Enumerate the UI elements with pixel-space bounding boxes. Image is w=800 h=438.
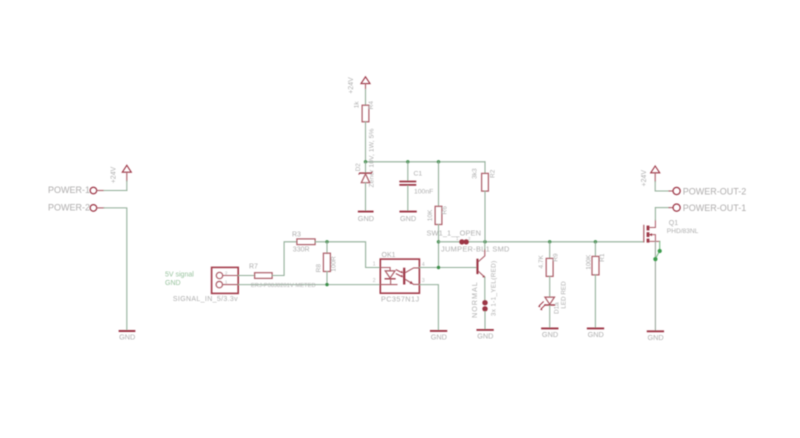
OK1 phototransistor bbox=[403, 268, 419, 285]
svg-text:GND: GND bbox=[477, 332, 493, 341]
wire C1 to GND bbox=[407, 186, 409, 210]
ground (left) bbox=[119, 331, 135, 342]
wire X1 pin1 to opto cathode bbox=[238, 284, 380, 286]
junction bbox=[483, 240, 486, 243]
svg-text:1: 1 bbox=[225, 280, 228, 286]
svg-text:GND: GND bbox=[431, 333, 447, 342]
svg-text:SW1_1__OPEN: SW1_1__OPEN bbox=[427, 228, 482, 237]
wire jumper to GND bbox=[484, 312, 486, 330]
resistor R2 3k3 bbox=[472, 168, 497, 191]
svg-text:D2: D2 bbox=[355, 163, 362, 172]
svg-text:Zener 10V, 1W, 5%: Zener 10V, 1W, 5% bbox=[369, 128, 376, 187]
svg-text:1: 1 bbox=[373, 262, 376, 268]
resistor R4 1k bbox=[354, 101, 375, 122]
svg-text:C1: C1 bbox=[414, 170, 423, 177]
junction bbox=[658, 249, 662, 253]
svg-text:330R: 330R bbox=[293, 246, 310, 253]
op-amp OK1 optocoupler box bbox=[380, 252, 419, 303]
svg-text:R3: R3 bbox=[292, 232, 301, 239]
wire node to R6 bbox=[438, 162, 440, 207]
jumper NORMAL pads bbox=[482, 300, 487, 311]
svg-text:GND: GND bbox=[400, 214, 416, 223]
wire zener to GND bbox=[365, 183, 367, 211]
wire R7 to R3 bbox=[272, 242, 297, 276]
OK1 internal LED bbox=[380, 268, 397, 285]
wire X1 pin2 to R7 bbox=[238, 275, 254, 277]
svg-text:100K: 100K bbox=[586, 254, 593, 270]
wire source to GND bbox=[654, 241, 656, 330]
resistor R6 10K bbox=[427, 206, 449, 225]
svg-text:5V signal: 5V signal bbox=[165, 271, 194, 278]
ground (LED) bbox=[542, 328, 558, 339]
wire +24V to R4 bbox=[365, 90, 367, 106]
svg-text:4.7K: 4.7K bbox=[538, 254, 545, 268]
svg-text:POWER-OUT-2: POWER-OUT-2 bbox=[683, 186, 747, 196]
wire OK1 emitter to GND bbox=[419, 285, 438, 330]
ground (C1) bbox=[400, 212, 416, 223]
wire R8 to GND net bbox=[326, 272, 328, 285]
svg-text:POWER-1: POWER-1 bbox=[48, 185, 90, 195]
svg-text:OK1: OK1 bbox=[382, 252, 396, 259]
wire node to zener bbox=[365, 162, 367, 173]
resistor R1 100K bbox=[586, 253, 607, 275]
svg-text:POWER-2: POWER-2 bbox=[48, 202, 90, 212]
junction bbox=[364, 160, 367, 163]
svg-text:2: 2 bbox=[225, 270, 228, 276]
wire POWER-1 to +24V bbox=[104, 190, 127, 192]
resistor R9 4.7K bbox=[538, 253, 559, 276]
ground (zener) bbox=[358, 212, 374, 223]
wire R6 down to opto collector net bbox=[438, 225, 440, 268]
svg-text:GND: GND bbox=[542, 330, 558, 339]
wire LED to GND bbox=[549, 306, 551, 328]
wire R2 to middle rail bbox=[484, 191, 486, 242]
svg-text:Q1: Q1 bbox=[669, 220, 678, 227]
svg-text:R4: R4 bbox=[368, 101, 375, 110]
capacitor C1 100nF bbox=[400, 170, 433, 195]
junction bbox=[325, 283, 328, 286]
svg-text:GND: GND bbox=[588, 330, 604, 339]
svg-text:SIGNAL_IN_5/3.3v: SIGNAL_IN_5/3.3v bbox=[173, 296, 238, 303]
resistor R7 bbox=[249, 264, 272, 279]
LED D1a LED RED bbox=[539, 281, 568, 314]
wire middle rail bbox=[439, 241, 644, 243]
transistor T1 bbox=[476, 249, 484, 277]
resistor R8 100R bbox=[316, 253, 338, 272]
wire emitter to jumper bbox=[484, 277, 486, 300]
svg-text:R9: R9 bbox=[552, 253, 559, 262]
wire R9 to LED bbox=[549, 276, 551, 296]
svg-text:3x 1-1_YEL(RED): 3x 1-1_YEL(RED) bbox=[491, 260, 498, 316]
wire +24V stem bbox=[126, 181, 128, 191]
wire OK1 collector to transistor base bbox=[419, 267, 476, 269]
connector pin POWER-OUT-1 bbox=[669, 203, 746, 213]
junction bbox=[548, 240, 551, 243]
svg-text:3: 3 bbox=[422, 278, 425, 284]
svg-text:+24V: +24V bbox=[110, 166, 117, 183]
svg-text:PHD/83NL: PHD/83NL bbox=[667, 228, 699, 235]
svg-text:R1: R1 bbox=[599, 253, 606, 262]
ground (emitter) bbox=[477, 330, 493, 341]
wire POWER-2 to GND bbox=[104, 208, 127, 329]
svg-text:R7: R7 bbox=[249, 264, 258, 271]
svg-text:JUMPER-BL1 SMD: JUMPER-BL1 SMD bbox=[441, 245, 510, 254]
junction bbox=[325, 240, 328, 243]
junction bbox=[437, 240, 440, 243]
svg-text:LED RED: LED RED bbox=[560, 281, 567, 309]
wire top rail node bbox=[366, 161, 486, 163]
connector X1 SIGNAL_IN_5/3.3v bbox=[212, 267, 239, 293]
ground (OK1) bbox=[431, 331, 447, 342]
svg-text:10K: 10K bbox=[427, 209, 434, 221]
junction bbox=[653, 257, 657, 261]
wire +24V to POWER-OUT-2 bbox=[655, 182, 669, 192]
wire top rail down to R2 bbox=[484, 162, 486, 174]
wire source dogleg bbox=[655, 241, 659, 259]
wire R3 to opto anode bbox=[315, 242, 380, 268]
junction bbox=[594, 240, 597, 243]
junction bbox=[437, 266, 440, 269]
svg-text:GND: GND bbox=[119, 333, 135, 342]
svg-text:100R: 100R bbox=[330, 256, 337, 272]
svg-text:PC357N1J: PC357N1J bbox=[381, 295, 420, 304]
connector pin POWER-2 bbox=[48, 202, 104, 212]
junction bbox=[437, 160, 440, 163]
wire R4 to node bbox=[365, 122, 367, 162]
svg-text:+24V: +24V bbox=[641, 170, 648, 187]
supply +24V (top center) bbox=[348, 77, 370, 94]
wire POWER-OUT-1 to drain bbox=[655, 207, 669, 209]
svg-text:ERJ-P08J8201V METED: ERJ-P08J8201V METED bbox=[251, 283, 316, 289]
wire node to C1 bbox=[407, 162, 409, 181]
svg-text:100nF: 100nF bbox=[414, 188, 433, 195]
wire collector to rail bbox=[484, 242, 486, 250]
svg-text:R2: R2 bbox=[490, 169, 497, 178]
wire rail down to R1 bbox=[594, 242, 596, 257]
svg-text:GND: GND bbox=[358, 214, 374, 223]
ground (R1) bbox=[588, 328, 604, 339]
wire R1 to GND bbox=[594, 275, 596, 328]
svg-text:1k: 1k bbox=[354, 101, 361, 109]
jumper SW1_1 pads bbox=[456, 236, 471, 245]
svg-text:GND: GND bbox=[165, 280, 181, 287]
connector pin POWER-OUT-2 bbox=[669, 186, 746, 196]
zener diode D2 bbox=[359, 172, 372, 183]
svg-text:+24V: +24V bbox=[348, 77, 355, 94]
svg-text:GND: GND bbox=[647, 333, 663, 342]
supply +24V (left) bbox=[110, 165, 131, 183]
supply +24V (right) bbox=[641, 166, 659, 186]
svg-text:POWER-OUT-1: POWER-OUT-1 bbox=[683, 203, 747, 213]
transistor Q1 MOSFET bbox=[644, 220, 699, 243]
connector pin POWER-1 bbox=[48, 185, 104, 195]
svg-text:2: 2 bbox=[373, 278, 376, 284]
wire junction to R8 bbox=[326, 242, 328, 253]
svg-text:R6: R6 bbox=[442, 206, 449, 215]
wire drain to POWER-OUT-1 bbox=[654, 208, 656, 220]
svg-text:NORMAL: NORMAL bbox=[470, 281, 479, 318]
ground (MOSFET source) bbox=[647, 331, 663, 342]
svg-text:R8: R8 bbox=[316, 264, 323, 273]
svg-text:3k3: 3k3 bbox=[472, 168, 479, 179]
wire rail down to R9 bbox=[549, 242, 551, 259]
resistor R3 330R bbox=[292, 232, 315, 254]
junction bbox=[406, 160, 409, 163]
OK1 light arrows bbox=[396, 270, 402, 277]
